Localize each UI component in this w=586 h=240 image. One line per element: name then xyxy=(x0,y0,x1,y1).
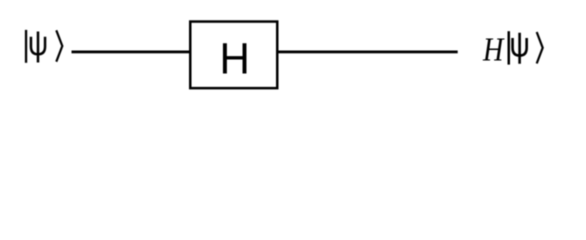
svg-text:H: H xyxy=(482,30,505,68)
svg-text:H: H xyxy=(220,35,250,84)
